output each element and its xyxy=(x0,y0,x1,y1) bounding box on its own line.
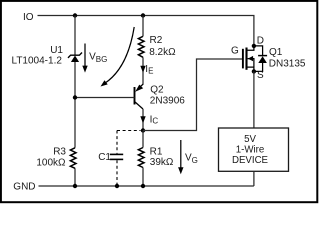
svg-text:GND: GND xyxy=(13,182,35,193)
block 5V 1-Wire DEVICE xyxy=(219,128,289,171)
wire collector node to Q1 gate xyxy=(143,59,243,131)
arrow IC xyxy=(140,116,145,123)
capacitor C1 (dashed optional) xyxy=(110,131,141,187)
wire device to GND rail xyxy=(253,171,255,186)
wire Q1 source to 1-wire device xyxy=(253,71,255,128)
curved arrow current path xyxy=(101,27,135,87)
arrow IE xyxy=(140,66,145,73)
wire U1 to Q2 base xyxy=(75,97,135,99)
resistor R1 xyxy=(138,148,144,168)
svg-text:DN3135: DN3135 xyxy=(269,59,306,70)
resistor R2 xyxy=(138,36,144,57)
svg-text:S: S xyxy=(257,70,264,81)
wire Q2 collector down to node xyxy=(142,109,144,131)
svg-text:C1: C1 xyxy=(98,152,111,163)
wire R1 to GND xyxy=(142,168,144,187)
svg-text:U1: U1 xyxy=(50,45,63,56)
arrow VG (gate voltage) xyxy=(178,140,183,174)
wire R2 to Q2 emitter xyxy=(142,57,144,84)
wire collector node to R1 xyxy=(142,131,144,148)
svg-text:100kΩ: 100kΩ xyxy=(36,157,66,168)
svg-text:G: G xyxy=(231,45,239,56)
svg-text:D: D xyxy=(257,35,264,46)
svg-text:IE: IE xyxy=(145,64,153,75)
svg-text:DEVICE: DEVICE xyxy=(232,155,269,166)
transistor Q2 2N3906 xyxy=(135,84,144,109)
svg-text:Q2: Q2 xyxy=(150,85,164,96)
junction dot collector node xyxy=(141,128,145,132)
arrow VBG (bandgap voltage) xyxy=(82,44,87,73)
svg-text:R2: R2 xyxy=(150,35,163,46)
transistor Q1 DN3135 MOSFET xyxy=(243,46,254,72)
junction dot GND R1 xyxy=(141,184,145,188)
svg-text:1-Wire: 1-Wire xyxy=(236,145,265,156)
diode U1 (shunt reference) xyxy=(68,53,82,63)
junction dot Q1 drain xyxy=(252,44,256,48)
wire left branch IO to GND through U1 and R3 xyxy=(74,16,76,187)
junction dot top rail / R2 branch xyxy=(141,13,145,17)
svg-text:39kΩ: 39kΩ xyxy=(150,157,174,168)
junction dot Q1 source xyxy=(252,69,256,73)
junction dot top rail / U1 branch xyxy=(73,13,77,17)
svg-text:IC: IC xyxy=(150,114,159,125)
svg-text:LT1004-1.2: LT1004-1.2 xyxy=(12,56,63,67)
body diode of Q1 xyxy=(254,46,267,72)
wire top rail IO to Q1 drain xyxy=(38,16,254,46)
resistor R3 xyxy=(70,148,76,169)
wire R2 top lead xyxy=(142,16,144,37)
svg-text:2N3906: 2N3906 xyxy=(150,96,185,107)
wire GND rail xyxy=(39,185,254,187)
svg-text:Q1: Q1 xyxy=(269,47,283,58)
junction dot GND C1 xyxy=(115,184,119,188)
svg-text:R3: R3 xyxy=(53,146,66,157)
svg-text:5V: 5V xyxy=(244,134,256,145)
svg-text:IO: IO xyxy=(23,12,34,23)
junction dot base wire xyxy=(73,95,77,99)
svg-text:8.2kΩ: 8.2kΩ xyxy=(149,47,176,58)
junction dot GND R3 xyxy=(73,184,77,188)
